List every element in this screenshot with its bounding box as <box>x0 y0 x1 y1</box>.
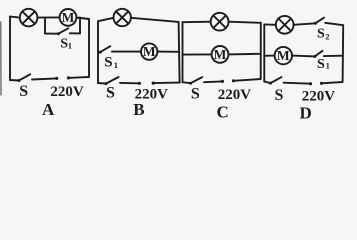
terminal dot B right <box>152 82 155 85</box>
wire B middle right <box>157 51 179 53</box>
motor M-D <box>275 47 292 64</box>
wire B bottom-left <box>98 82 106 85</box>
svg-text:1: 1 <box>68 40 72 50</box>
svg-text:220V: 220V <box>50 84 84 100</box>
wire D top-left <box>264 23 276 25</box>
svg-text:220V: 220V <box>302 89 336 105</box>
motor M-B <box>141 43 157 59</box>
svg-text:1: 1 <box>326 60 330 70</box>
wire B bottom-right <box>153 82 180 85</box>
svg-text:B: B <box>133 100 144 119</box>
label S2-D <box>317 27 330 42</box>
wire C bottom mid <box>204 80 222 83</box>
wire C middle right <box>228 53 260 56</box>
terminal dot C right <box>232 79 235 82</box>
wire D middle left <box>264 55 274 57</box>
svg-text:M: M <box>277 48 290 63</box>
wire D top-right <box>325 23 343 25</box>
terminal dot B left <box>138 82 141 85</box>
wire D middle right <box>324 55 343 57</box>
wire C right vertical <box>260 23 262 79</box>
wire C bottom-left <box>183 82 191 83</box>
wire B middle to motor <box>112 51 141 53</box>
svg-text:220V: 220V <box>218 87 252 103</box>
wire A branch right <box>70 32 80 34</box>
switch S-D pivot <box>269 82 272 85</box>
wire D bottom mid <box>284 83 311 84</box>
switch S-B pivot <box>105 82 108 85</box>
switch S1-B pivot <box>99 51 102 54</box>
switch S-B blade <box>106 77 119 84</box>
svg-text:M: M <box>143 44 156 59</box>
label S1-D <box>317 57 330 72</box>
wire D top lamp to S2 <box>294 23 316 25</box>
lamp L-A <box>20 9 38 27</box>
wire B top-right <box>131 18 179 22</box>
label S1-A <box>60 36 72 51</box>
wire D left vertical <box>263 24 265 81</box>
svg-text:S: S <box>317 57 325 72</box>
svg-text:A: A <box>42 100 55 119</box>
switch S1-A pivot <box>57 32 60 35</box>
terminal dot A right <box>67 76 70 79</box>
wire lamp to motor <box>37 16 59 18</box>
wire B bottom mid <box>120 82 139 84</box>
wire A right vertical <box>88 19 90 77</box>
switch S1-D pivot <box>313 55 316 58</box>
wire A top-left <box>10 17 20 18</box>
terminal dot D right <box>320 82 323 85</box>
switch S-A blade <box>19 74 30 80</box>
switch S-C pivot <box>189 82 192 85</box>
wire D middle to S1 <box>292 55 315 58</box>
wire B left vertical <box>97 21 99 83</box>
wire B top-left <box>98 18 114 21</box>
svg-text:S: S <box>106 85 115 102</box>
lamp L-D <box>276 16 294 34</box>
wire A bottom-right <box>69 77 90 78</box>
wire A left vertical <box>9 17 11 80</box>
wire B middle branch left stub <box>98 51 100 53</box>
switch S-A pivot <box>17 79 20 82</box>
svg-text:S: S <box>275 87 284 104</box>
motor M-C <box>212 46 229 63</box>
wire C bottom-right <box>234 79 261 81</box>
wire C middle left <box>183 53 212 55</box>
terminal dot D left <box>309 82 312 85</box>
svg-text:2: 2 <box>325 31 329 41</box>
wire D bottom-right <box>322 82 343 83</box>
wire C top-left <box>183 21 211 24</box>
lamp L-B <box>114 9 131 26</box>
svg-text:M: M <box>214 47 227 62</box>
switch S1-D blade <box>315 51 323 57</box>
switch S1-A blade <box>58 28 68 33</box>
switch S-C blade <box>191 77 203 83</box>
switch S1-B blade <box>100 46 110 52</box>
scan edge artifact <box>0 22 2 95</box>
svg-text:S: S <box>104 54 112 70</box>
terminal dot C left <box>221 80 224 83</box>
wire motor to top-right corner <box>76 18 89 20</box>
switch S2-D pivot <box>314 22 317 25</box>
wire A bottom-left <box>10 79 19 82</box>
terminal dot A left <box>55 77 58 80</box>
svg-text:1: 1 <box>114 60 118 70</box>
svg-text:S: S <box>19 83 28 100</box>
svg-text:C: C <box>217 102 229 121</box>
svg-text:S: S <box>317 27 325 42</box>
svg-text:M: M <box>62 10 75 25</box>
svg-text:D: D <box>300 103 312 122</box>
label S1-B <box>104 54 118 70</box>
wire A bottom mid <box>32 78 57 79</box>
wire C left vertical <box>182 22 184 82</box>
wire C top-right <box>229 22 261 23</box>
switch S-D blade <box>271 77 282 83</box>
lamp L-C <box>211 13 229 31</box>
svg-text:S: S <box>191 86 200 103</box>
wire A box right vertical <box>79 18 81 34</box>
motor M-A <box>60 9 77 26</box>
wire A box left vertical <box>44 18 46 34</box>
wire B right vertical <box>179 22 180 83</box>
wire A branch left <box>45 33 58 35</box>
wire D right vertical <box>342 25 345 82</box>
wire D bottom-left <box>264 82 270 84</box>
switch S2-D blade <box>315 18 324 24</box>
